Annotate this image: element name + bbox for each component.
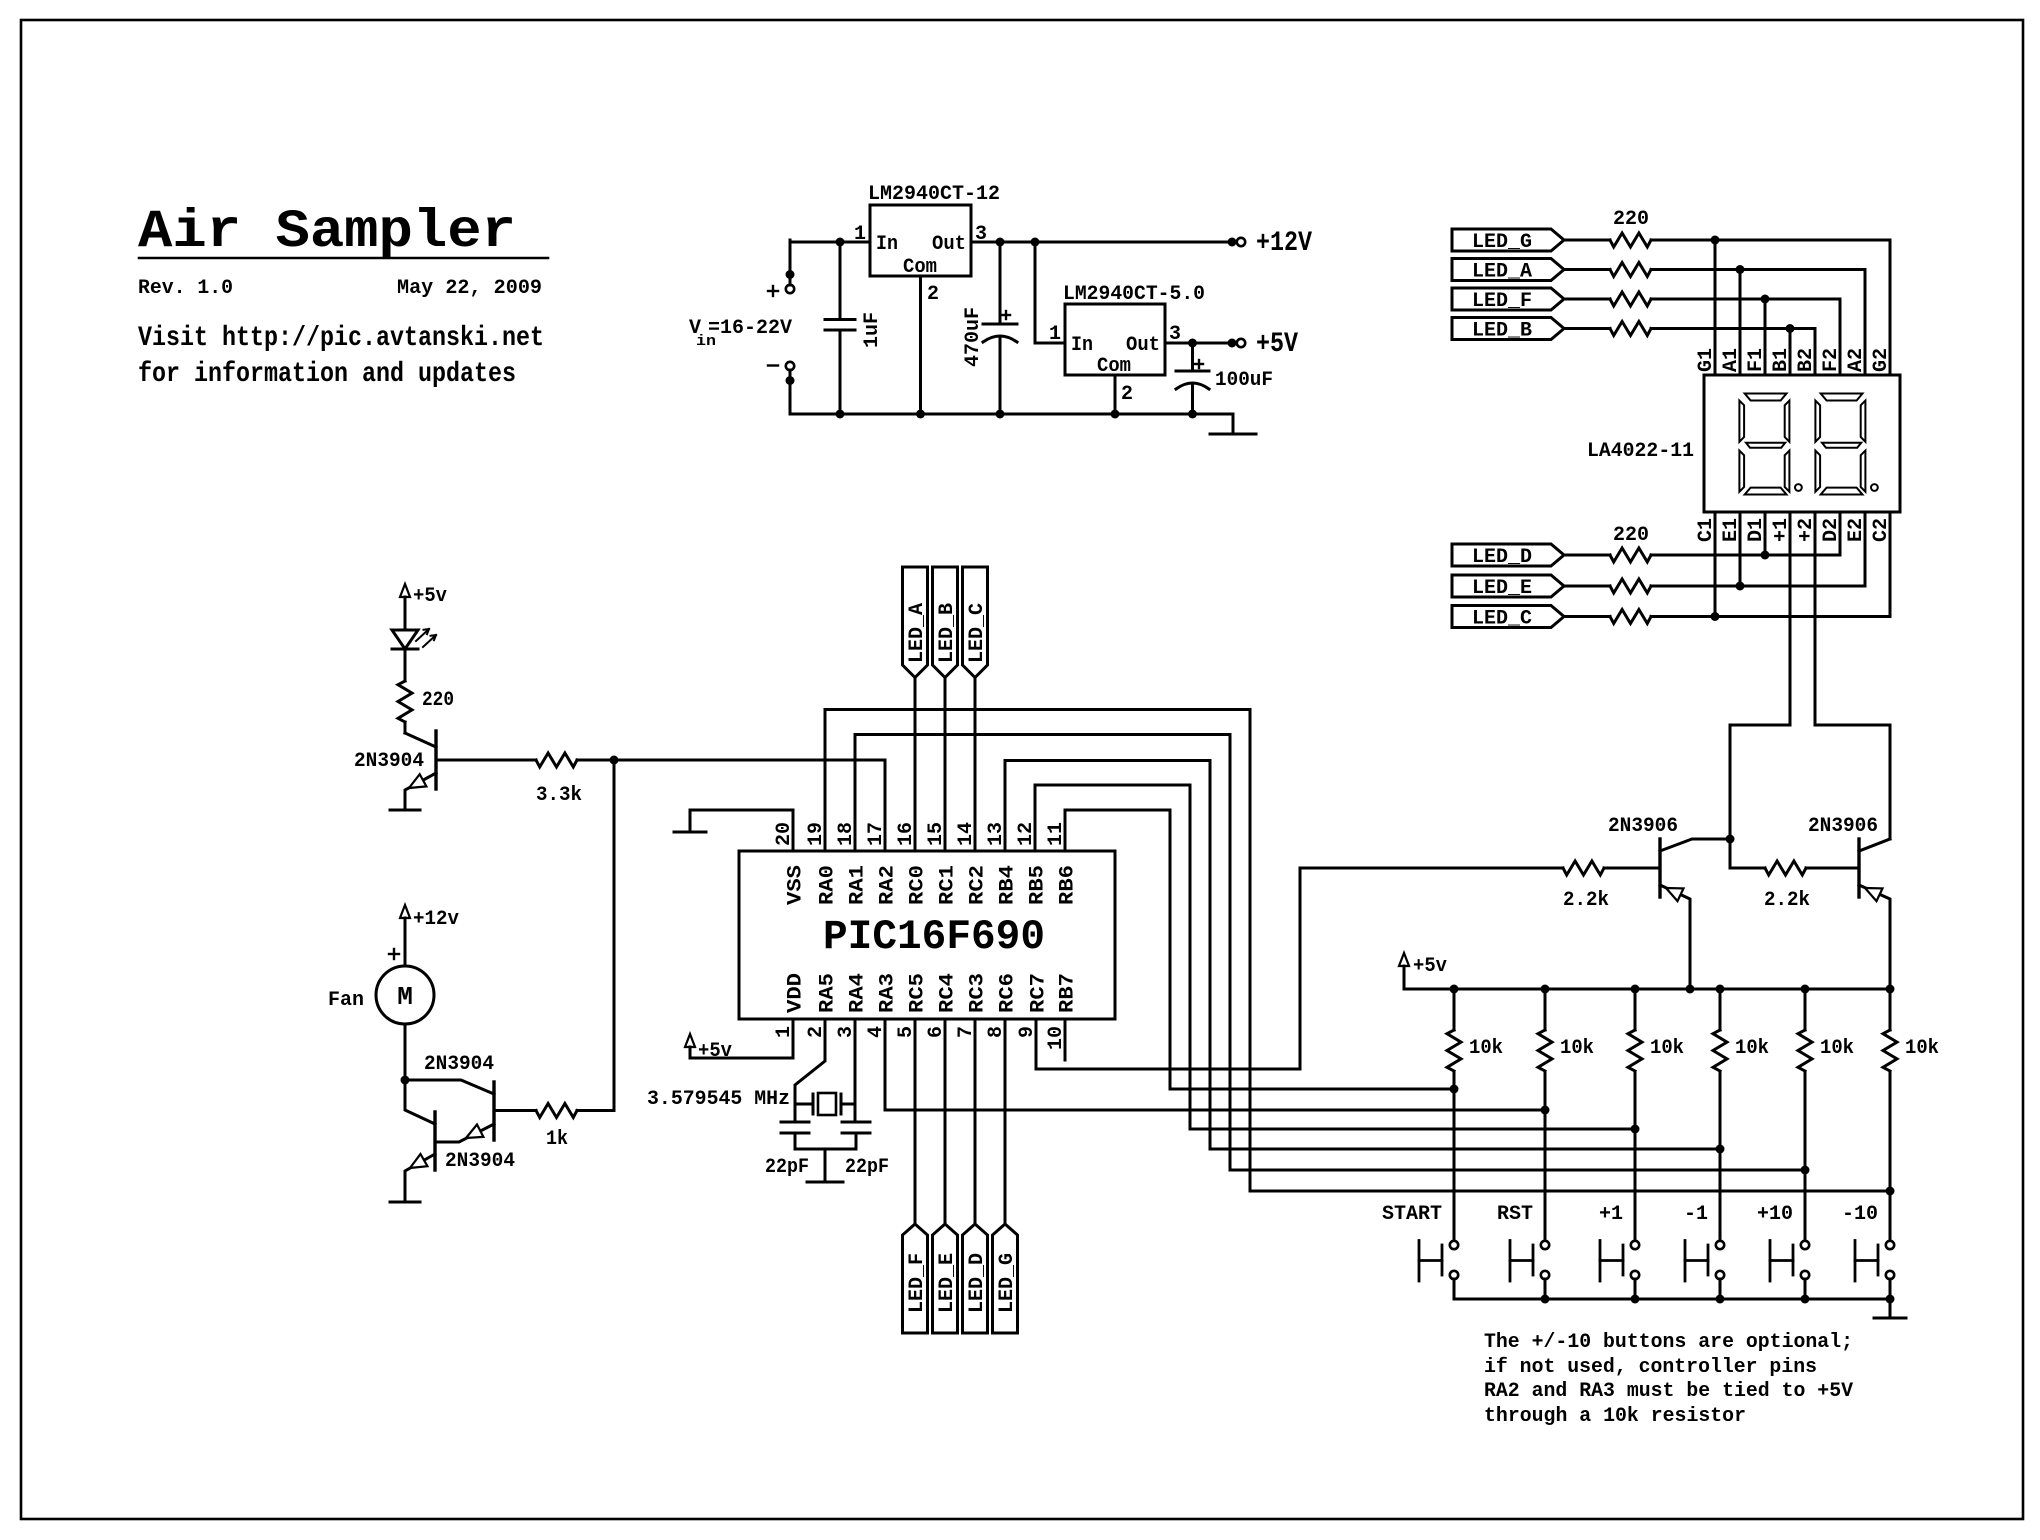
wire +5v to LED [404, 597, 407, 630]
svg-text:2: 2 [927, 283, 939, 306]
wire crystal caps to ground [795, 1148, 856, 1151]
svg-text:Air Sampler: Air Sampler [138, 202, 516, 263]
wire button -1 to ground rail [1719, 1279, 1722, 1299]
power +5v arrow (VDD) [685, 1034, 695, 1047]
svg-text:E1: E1 [1720, 518, 1743, 542]
net flag LED_A [1452, 259, 1564, 281]
svg-text:May 22, 2009: May 22, 2009 [397, 277, 542, 300]
svg-text:RA0: RA0 [817, 865, 840, 905]
7seg segment G [1822, 443, 1861, 448]
wire Q1 base to 3.3k [436, 759, 536, 762]
wire LED_F to display [1651, 298, 1840, 301]
svg-text:RB7: RB7 [1057, 973, 1080, 1013]
svg-text:RA5: RA5 [817, 973, 840, 1013]
svg-text:2N3904: 2N3904 [445, 1150, 515, 1173]
svg-text:RB5: RB5 [1027, 865, 1050, 905]
svg-text:if not used, controller pins: if not used, controller pins [1484, 1356, 1817, 1379]
capacitor C2 470uF [999, 242, 1002, 324]
ground (buttons) [1889, 1299, 1892, 1318]
U3 pin15 RC1 wire to LED_B flag [944, 678, 947, 852]
7seg decimal point digit 2 [1871, 484, 1878, 491]
7seg segment C [1785, 451, 1790, 492]
svg-text:RB6: RB6 [1057, 865, 1080, 905]
wire 3.3k to RA2 pin17 [577, 759, 885, 762]
svg-text:D2: D2 [1820, 518, 1843, 542]
capacitor C4 22pF [781, 1121, 809, 1124]
wire LED_G to resistor [1564, 239, 1610, 242]
wire LED_D to resistor [1564, 554, 1610, 557]
button S +10 [1801, 1241, 1809, 1249]
wire LED_E first column [1739, 512, 1742, 586]
svg-text:RC7: RC7 [1028, 973, 1051, 1013]
svg-text:2: 2 [1121, 383, 1133, 406]
resistor 220 (LED) [398, 681, 412, 722]
crystal Y1 3.579545 MHz [795, 1103, 813, 1106]
svg-text:1: 1 [854, 223, 866, 246]
svg-text:through a 10k resistor: through a 10k resistor [1484, 1405, 1746, 1428]
svg-text:LED_D: LED_D [966, 1253, 989, 1313]
U3 pin4 RA3 wire to RST button [885, 1020, 1545, 1110]
button S -10 [1886, 1241, 1894, 1249]
transistor Q4 2N3906 base bar [1658, 839, 1661, 897]
svg-text:PIC16F690: PIC16F690 [823, 913, 1045, 961]
resistor 10k (RST) [1541, 985, 1550, 994]
7seg segment C [1861, 451, 1866, 492]
net flag LED_C [1452, 606, 1564, 628]
svg-text:LED_B: LED_B [1472, 320, 1532, 343]
svg-text:Out: Out [1126, 334, 1160, 357]
svg-text:START: START [1382, 1203, 1442, 1226]
svg-text:VDD: VDD [785, 973, 808, 1013]
svg-text:LED_B: LED_B [936, 603, 959, 663]
svg-text:2N3904: 2N3904 [424, 1053, 494, 1076]
U3 pin11 RB6 wire to START button [1065, 810, 1454, 1089]
Vin + terminal [786, 285, 794, 293]
7seg segment D [1745, 488, 1787, 495]
svg-text:LED_D: LED_D [1472, 546, 1532, 569]
transistor Q4 collector [1660, 839, 1730, 851]
svg-text:LED_A: LED_A [1472, 261, 1532, 284]
+12V terminal [1237, 238, 1245, 246]
resistor 220 (LED_B) [1610, 322, 1651, 336]
U3 pin6 RC4 wire to LED_E flag [944, 1020, 947, 1224]
svg-text:E2: E2 [1845, 518, 1868, 542]
svg-text:10k: 10k [1560, 1037, 1594, 1060]
resistor 220 (LED_C) [1610, 610, 1651, 624]
svg-text:RA4: RA4 [847, 973, 870, 1013]
resistor 220 (LED_D) [1610, 548, 1651, 562]
7seg segment G [1746, 443, 1785, 448]
svg-text:10k: 10k [1905, 1037, 1939, 1060]
wire LED_B to display [1651, 327, 1815, 330]
net flag LED_D (below U3) [963, 1224, 988, 1333]
svg-text:M: M [397, 982, 413, 1012]
wire +12V to U2 In [1035, 242, 1065, 343]
svg-text:+12v: +12v [413, 908, 459, 931]
wire Vin+ to U1 In [790, 241, 870, 244]
wire 1k to junction [577, 1109, 614, 1112]
wire 10k to button -1 [1719, 1073, 1722, 1240]
wire +12v to motor [404, 918, 407, 966]
transistor Q5 2N3906 base bar [1857, 839, 1860, 897]
svg-text:2.2k: 2.2k [1563, 889, 1609, 912]
svg-text:2N3906: 2N3906 [1608, 815, 1678, 838]
wire LED_G to display [1651, 239, 1890, 242]
svg-text:2.2k: 2.2k [1764, 889, 1810, 912]
fan + polarity [389, 953, 399, 955]
U3 pin3 RA4 wire to crystal [854, 1020, 857, 1122]
resistor 10k (+1) [1631, 985, 1640, 994]
transistor Q3 2N3904 collector [405, 1080, 435, 1124]
svg-text:G1: G1 [1695, 348, 1718, 372]
svg-text:+10: +10 [1757, 1203, 1793, 1226]
net flag LED_F [1452, 288, 1564, 310]
motor M1 circle [376, 966, 434, 1024]
svg-text:+1: +1 [1599, 1203, 1623, 1226]
wire display +1 to Q4 collector [1730, 542, 1790, 868]
net flag LED_B [1452, 318, 1564, 340]
svg-text:1uF: 1uF [861, 312, 884, 348]
U3 pin14 RC2 wire to LED_C flag [974, 678, 977, 852]
svg-text:-10: -10 [1842, 1203, 1878, 1226]
transistor Q5 emitter [1859, 885, 1890, 989]
resistor 2.2k (Q5) [1765, 861, 1806, 875]
capacitor C1 1uF [839, 242, 842, 320]
wire button -10 to ground rail [1889, 1279, 1892, 1299]
wire U1 Out to +12V [971, 241, 1237, 244]
U3 pin18 RA1 wire to +10 button [855, 735, 1805, 1171]
capacitor C3 100uF [1191, 343, 1194, 371]
svg-text:LA4022-11: LA4022-11 [1587, 440, 1694, 463]
wire 10k to button +10 [1804, 1073, 1807, 1240]
wire LED_B first column [1789, 329, 1792, 376]
resistor 10k (+10) [1801, 985, 1810, 994]
svg-text:RC6: RC6 [997, 973, 1020, 1013]
net flag LED_F (below U3) [903, 1224, 928, 1333]
net flag LED_E (below U3) [933, 1224, 958, 1333]
resistor 10k (-10) [1889, 989, 1892, 1030]
transistor Q1 2N3904 base bar [434, 731, 437, 789]
svg-text:VSS: VSS [785, 865, 808, 905]
svg-text:220: 220 [1613, 208, 1649, 231]
wire LED_C to resistor [1564, 615, 1610, 618]
svg-text:A2: A2 [1845, 348, 1868, 372]
resistor 10k (START) [1450, 985, 1459, 994]
wire LED_F first column [1764, 299, 1767, 375]
svg-text:B2: B2 [1795, 348, 1818, 372]
regulator U2 LM2940CT-5.0 [1065, 304, 1165, 375]
svg-text:C2: C2 [1870, 518, 1893, 542]
svg-text:for information and updates: for information and updates [138, 359, 516, 390]
svg-text:100uF: 100uF [1215, 369, 1273, 392]
transistor Q1 2N3904 emitter [405, 773, 436, 810]
svg-text:F1: F1 [1745, 348, 1768, 372]
7seg segment A [1821, 394, 1863, 401]
wire display +2 to Q5 collector [1815, 542, 1890, 839]
svg-text:LM2940CT-5.0: LM2940CT-5.0 [1063, 283, 1205, 306]
svg-text:LED_E: LED_E [936, 1253, 959, 1313]
wire U2 Out to +5V [1165, 342, 1237, 345]
svg-text:220: 220 [422, 689, 454, 712]
resistor 220 (LED_E) [1610, 579, 1651, 593]
button S -1 [1716, 1241, 1724, 1249]
wire button +1 to ground rail [1634, 1279, 1637, 1299]
ground (fan transistors) [390, 1201, 420, 1204]
transistor Q2 2N3904 emitter [435, 1124, 494, 1142]
transistor Q2 2N3904 base bar [492, 1082, 495, 1140]
svg-text:In: In [876, 233, 898, 256]
svg-text:220: 220 [1613, 524, 1649, 547]
svg-text:-1: -1 [1684, 1203, 1708, 1226]
+5v rail [1404, 988, 1890, 991]
power +12v arrow (fan) [400, 905, 410, 918]
wire 10k to button -10 [1889, 1073, 1892, 1240]
wire LED_B to resistor [1564, 327, 1610, 330]
transistor Q1 2N3904 collector [405, 733, 436, 747]
power +5v arrow (LED) [400, 584, 410, 597]
svg-text:10k: 10k [1469, 1037, 1503, 1060]
U3 pin13 RB4 wire to -1 button [1005, 761, 1720, 1150]
net flag LED_G (below U3) [993, 1224, 1018, 1333]
svg-text:RA3: RA3 [877, 973, 900, 1013]
wire LED_G first column [1714, 240, 1717, 375]
resistor 10k (-1) [1716, 985, 1725, 994]
wire motor to Q2 collector [404, 1024, 407, 1080]
wire Q2 base to 1k [494, 1109, 536, 1112]
net flag LED_D [1452, 544, 1564, 566]
transistor Q4 emitter [1660, 885, 1690, 989]
svg-text:1: 1 [1049, 323, 1061, 346]
transistor Q3 2N3904 base bar [433, 1112, 436, 1170]
resistor 220 (LED_G) [1610, 233, 1651, 247]
svg-text:Out: Out [932, 233, 966, 256]
display DIS1 LA4022-11 body [1704, 375, 1900, 512]
+5V terminal [1237, 339, 1245, 347]
svg-text:The +/-10 buttons are optional: The +/-10 buttons are optional; [1484, 1331, 1853, 1354]
transistor Q3 emitter [405, 1154, 435, 1202]
svg-text:+5v: +5v [1413, 955, 1447, 978]
wire R220 to Q1 collector [404, 722, 407, 733]
svg-text:LED_G: LED_G [1472, 231, 1532, 254]
button S START [1450, 1241, 1458, 1249]
svg-text:3.3k: 3.3k [536, 784, 582, 807]
display pin stub +2 [1814, 512, 1817, 542]
capacitor C5 22pF [842, 1121, 870, 1124]
svg-text:LED_F: LED_F [1472, 290, 1532, 313]
U3 pin5 RC5 wire to LED_F flag [914, 1020, 917, 1224]
U3 pin12 RB5 wire to +1 button [1035, 785, 1635, 1129]
resistor 220 (LED_A) [1610, 263, 1651, 277]
net flag LED_A (above U3) [903, 567, 928, 678]
ground (VSS) [674, 831, 706, 834]
wire LED_C to display [1651, 615, 1890, 618]
svg-text:RB4: RB4 [997, 865, 1020, 905]
U3 pin10 RB7 stub [1064, 1020, 1067, 1060]
wire 10k to button START [1453, 1073, 1456, 1240]
7seg segment E [1739, 451, 1744, 492]
wire LED_F to resistor [1564, 298, 1610, 301]
svg-text:LED_G: LED_G [996, 1253, 1019, 1313]
svg-text:In: In [1071, 334, 1093, 357]
resistor 2.2k (Q4) [1563, 861, 1604, 875]
resistor 3.3k [536, 753, 577, 767]
U3 pin17 RA2 wire (3.3k net) [884, 760, 887, 851]
svg-text:2N3904: 2N3904 [354, 750, 424, 773]
regulator U1 LM2940CT-12 [870, 205, 971, 276]
svg-text:F2: F2 [1820, 348, 1843, 372]
wire LED_E to display [1651, 585, 1865, 588]
svg-text:LED_E: LED_E [1472, 577, 1532, 600]
ground (LED transistor) [390, 809, 420, 812]
svg-text:RST: RST [1497, 1203, 1533, 1226]
title underline [139, 257, 548, 260]
resistor 220 (LED_F) [1610, 292, 1651, 306]
svg-text:RC1: RC1 [937, 865, 960, 905]
wire button +10 to ground rail [1804, 1279, 1807, 1299]
svg-text:+5V: +5V [1256, 329, 1298, 360]
display pin stub +1 [1789, 512, 1792, 542]
wire LED_A first column [1739, 270, 1742, 376]
button ground rail [1454, 1298, 1890, 1301]
svg-text:2N3906: 2N3906 [1808, 815, 1878, 838]
svg-text:RC4: RC4 [937, 973, 960, 1013]
svg-text:22pF: 22pF [765, 1156, 809, 1179]
svg-text:Fan: Fan [328, 989, 364, 1012]
7seg decimal point digit 1 [1795, 484, 1802, 491]
button S RST [1541, 1241, 1549, 1249]
7seg segment E [1815, 451, 1820, 492]
7seg segment D [1821, 488, 1863, 495]
svg-text:22pF: 22pF [845, 1156, 889, 1179]
svg-text:RA2 and RA3 must be tied to +5: RA2 and RA3 must be tied to +5V [1484, 1380, 1853, 1403]
psu ground symbol [1232, 414, 1235, 434]
svg-text:LED_F: LED_F [906, 1253, 929, 1313]
svg-text:1k: 1k [546, 1128, 568, 1151]
wire 2.2k to Q4 base [1604, 867, 1660, 870]
wire RC7 to 2.2k (Q4) [1300, 867, 1563, 870]
wire 10k to button +1 [1634, 1073, 1637, 1240]
svg-text:10k: 10k [1650, 1037, 1684, 1060]
transistor Q2 2N3904 collector wire [405, 1080, 494, 1094]
U3 pin2 RA5 wire to crystal [795, 1020, 825, 1122]
svg-text:LED_A: LED_A [906, 603, 929, 663]
svg-text:LED_C: LED_C [1472, 608, 1532, 631]
svg-text:10k: 10k [1735, 1037, 1769, 1060]
svg-text:G2: G2 [1870, 348, 1893, 372]
transistor Q5 collector [1859, 839, 1890, 851]
7seg segment B [1785, 401, 1790, 442]
wire LED_A to resistor [1564, 268, 1610, 271]
wire 10k to button RST [1544, 1073, 1547, 1240]
svg-text:+12V: +12V [1256, 228, 1312, 259]
net flag LED_C (above U3) [963, 567, 988, 678]
svg-text:RA2: RA2 [877, 865, 900, 905]
svg-text:470uF: 470uF [962, 307, 985, 367]
7seg segment A [1745, 394, 1787, 401]
svg-text:C1: C1 [1695, 518, 1718, 542]
wire 2.2k to Q5 base [1806, 867, 1859, 870]
svg-text:Visit http://pic.avtanski.net: Visit http://pic.avtanski.net [138, 323, 544, 354]
net flag LED_G [1452, 229, 1564, 251]
U3 pin9 RC7 wire to Q4 base [1036, 868, 1300, 1069]
wire button RST to ground rail [1544, 1279, 1547, 1299]
svg-text:LED_C: LED_C [966, 603, 989, 663]
U3 pin7 RC3 wire to LED_D flag [974, 1020, 977, 1224]
net flag LED_B (above U3) [933, 567, 958, 678]
7seg segment F [1739, 401, 1744, 442]
IC U3 PIC16F690 body [739, 851, 1115, 1019]
U3 pin1 VDD wire to +5v [690, 1020, 793, 1058]
svg-text:B1: B1 [1770, 348, 1793, 372]
button S +1 [1631, 1241, 1639, 1249]
U3 pin20 VSS wire to ground [690, 810, 793, 851]
svg-text:10k: 10k [1820, 1037, 1854, 1060]
net flag LED_E [1452, 575, 1564, 597]
psu ground rail [790, 413, 1233, 416]
7seg segment B [1861, 401, 1866, 442]
7seg segment F [1815, 401, 1820, 442]
svg-text:+5v: +5v [698, 1040, 732, 1063]
wire LED_C first column [1714, 512, 1717, 617]
svg-text:D1: D1 [1745, 518, 1768, 542]
ground (crystal) [807, 1181, 843, 1184]
svg-text:RA1: RA1 [847, 865, 870, 905]
svg-text:=16-22V: =16-22V [708, 317, 792, 340]
wire LED_D to display [1651, 554, 1840, 557]
svg-text:+5v: +5v [413, 585, 447, 608]
U3 pin19 RA0 wire to -10 button [825, 710, 1890, 1192]
U2 pin 2 [1114, 375, 1117, 414]
svg-text:RC3: RC3 [967, 973, 990, 1013]
wire LED to R220 [404, 649, 407, 681]
wire LED_E to resistor [1564, 585, 1610, 588]
U3 pin16 RC0 wire to LED_A flag [914, 678, 917, 852]
svg-text:RC0: RC0 [907, 865, 930, 905]
resistor 1k [536, 1104, 577, 1118]
svg-text:RC2: RC2 [967, 865, 990, 905]
wire LED_D first column [1764, 512, 1767, 555]
wire LED_A to display [1651, 268, 1865, 271]
wire button START to ground rail [1453, 1279, 1456, 1299]
svg-text:3.579545 MHz: 3.579545 MHz [647, 1088, 790, 1111]
LED D1 emission arrows [416, 629, 429, 641]
U3 pin8 RC6 wire to LED_G flag [1004, 1020, 1007, 1224]
svg-text:RC5: RC5 [907, 973, 930, 1013]
svg-text:LM2940CT-12: LM2940CT-12 [868, 183, 1000, 206]
wire Q4 collector to 2.2k (Q5) [1730, 867, 1765, 870]
wire junction down to 1k [613, 760, 616, 1111]
svg-text:A1: A1 [1720, 348, 1743, 372]
Vin - terminal [786, 362, 794, 370]
LED D1 [392, 630, 418, 649]
U1 pin 2 [919, 276, 922, 414]
power +5v arrow (buttons) [1399, 953, 1409, 966]
svg-text:Rev. 1.0: Rev. 1.0 [138, 277, 233, 300]
